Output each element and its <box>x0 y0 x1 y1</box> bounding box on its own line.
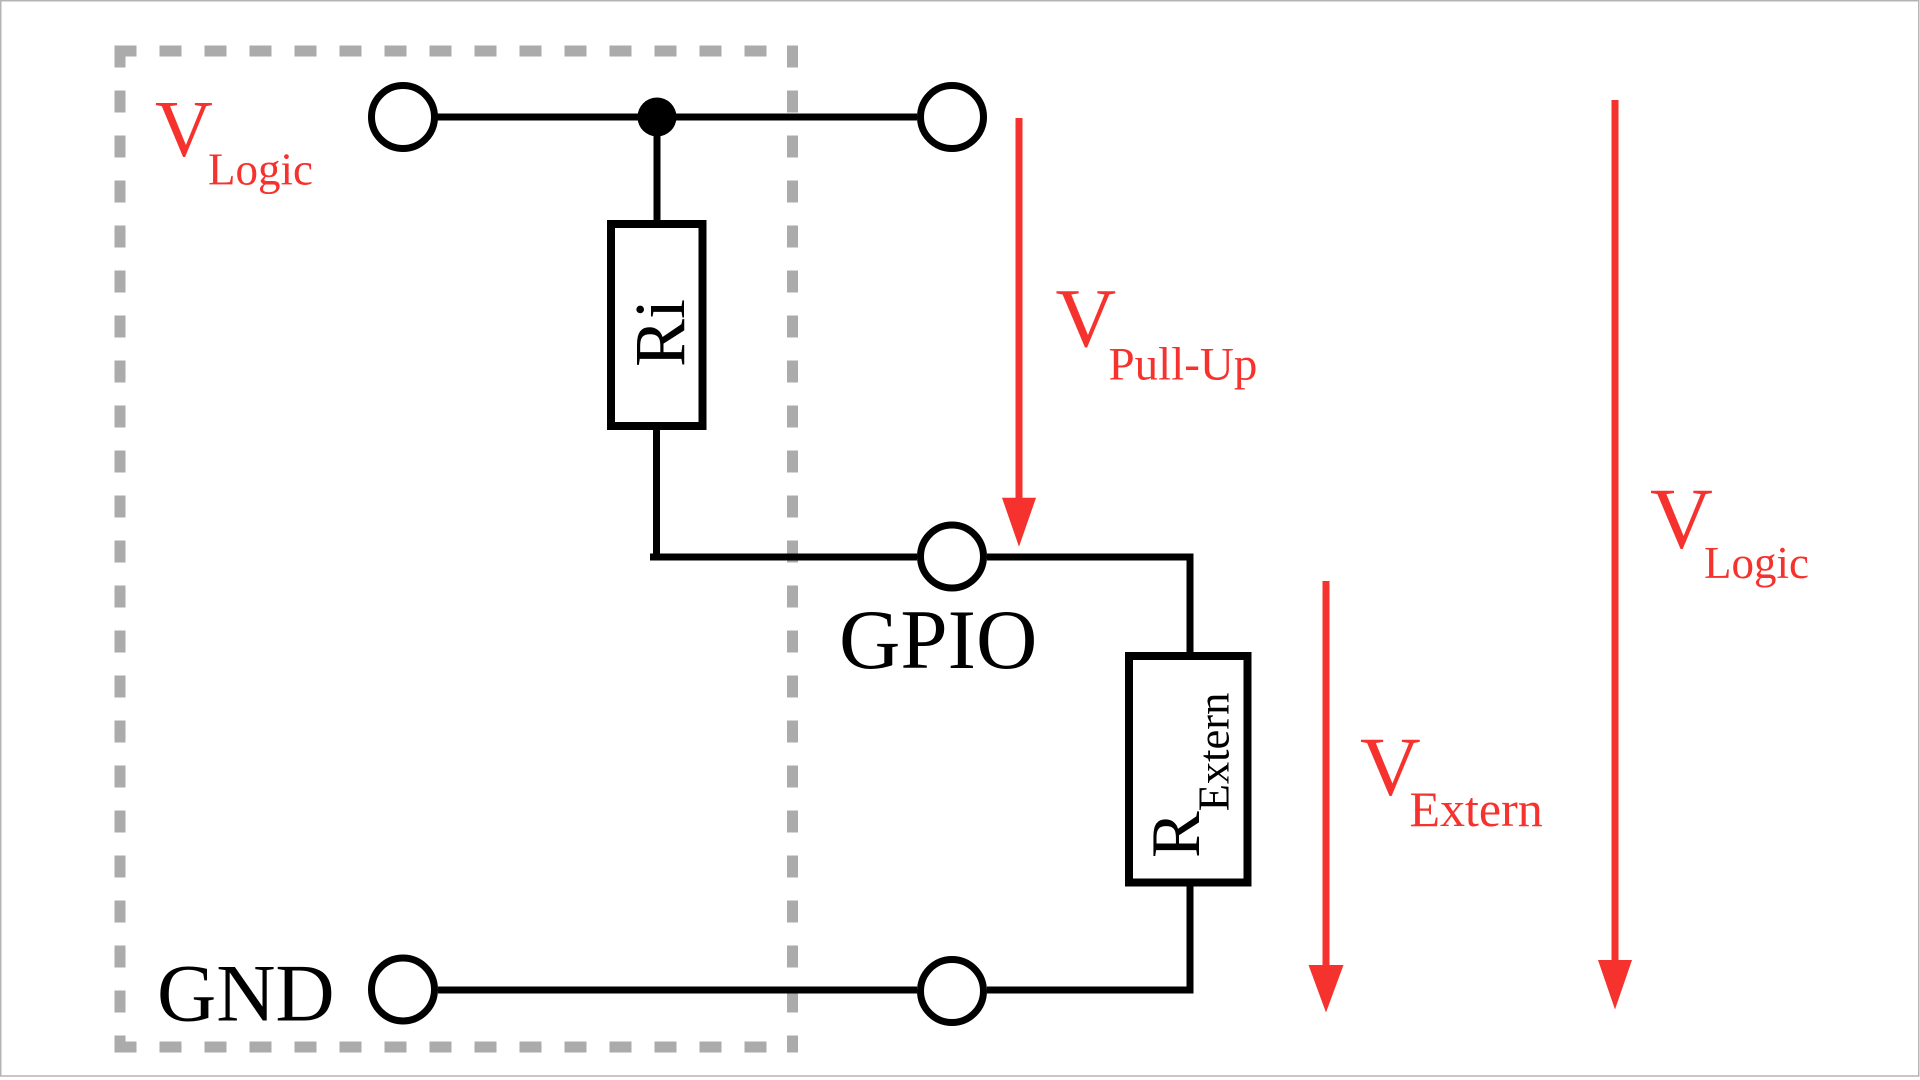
resistor R_Extern body <box>1129 656 1248 883</box>
svg-text:V: V <box>1056 272 1117 365</box>
terminal circle GND (bottom-left) <box>372 958 435 1021</box>
svg-text:Pull-Up: Pull-Up <box>1109 339 1258 391</box>
wire: VLogic terminal to junction to top-right terminal <box>437 114 917 121</box>
wire: junction down to Ri top <box>654 117 661 222</box>
wire: Ri bottom down and right to GPIO terminal <box>653 428 660 561</box>
svg-text:Logic: Logic <box>208 145 313 195</box>
terminal circle V_Logic (top-left) <box>372 86 435 149</box>
svg-text:Logic: Logic <box>1704 538 1809 588</box>
wire: GND terminal to bottom-mid terminal <box>438 987 917 994</box>
dashed boundary box right edge <box>787 46 798 1053</box>
svg-text:Ri: Ri <box>620 299 700 367</box>
wire: R_Extern bottom down then left to bottom-mid terminal <box>1187 880 1194 994</box>
arrow V_Extern <box>1323 581 1330 966</box>
terminal circle top-right <box>921 86 984 149</box>
svg-text:GPIO: GPIO <box>839 593 1037 687</box>
dashed boundary box left edge <box>115 46 126 1053</box>
wire: GPIO terminal right then down to R_Extern top <box>987 557 1190 658</box>
resistor Ri body <box>611 224 703 426</box>
arrow V_Pull-Up <box>1016 118 1023 499</box>
terminal circle GPIO <box>921 525 984 588</box>
svg-text:V: V <box>155 86 213 174</box>
dashed boundary box (chip internal) top edge <box>115 46 799 57</box>
svg-text:Extern: Extern <box>1410 781 1543 837</box>
svg-text:GND: GND <box>157 948 335 1039</box>
arrow V_Logic (right, full span) <box>1612 100 1619 961</box>
dashed boundary box bottom edge <box>115 1042 799 1053</box>
terminal circle bottom-mid <box>921 960 984 1023</box>
node junction dot <box>638 98 677 137</box>
